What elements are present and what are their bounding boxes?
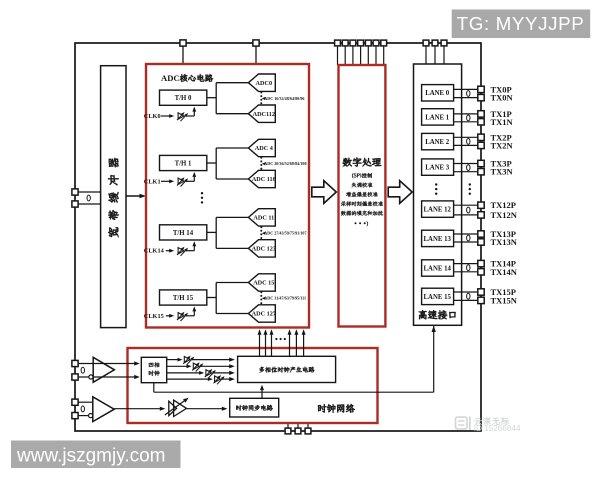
ADC slice ADC0 <box>248 74 275 91</box>
wire: sync amplifier to variable delay <box>114 408 162 410</box>
wires: multiphase clock outputs up to ADC core <box>259 332 261 357</box>
wire: T/H 0 output to ADC pair bracket <box>207 97 216 99</box>
wire: clock input pair to four-phase clock box <box>78 363 137 365</box>
svg-text:ADC 20/36/52/68/84/100: ADC 20/36/52/68/84/100 <box>264 161 306 166</box>
block: track-and-hold T/H 15 <box>160 290 207 305</box>
wire: LANE 0 to TX pins <box>453 88 478 90</box>
label 增益偏差校准 <box>346 192 351 197</box>
pin TX3P <box>478 160 484 166</box>
pin TX14P <box>478 260 484 266</box>
wire: T/H 14 output to ADC pair bracket <box>207 231 216 233</box>
pin TX13P <box>478 231 484 237</box>
wire: LANE 15 to TX pins <box>453 291 478 293</box>
block: four-phase clock 四相时钟 <box>141 357 166 382</box>
top pin P1 (to ADC core) <box>182 43 184 64</box>
svg-text:ADC 31/47/63/79/95/111: ADC 31/47/63/79/95/111 <box>264 296 306 301</box>
svg-text:LANE 3: LANE 3 <box>425 165 450 172</box>
top pin P2 (to ADC core) <box>255 43 257 64</box>
svg-text:TG: MYYJJPP: TG: MYYJJPP <box>457 13 585 34</box>
pin TX1P <box>478 111 484 117</box>
label ellipsis <box>355 222 357 224</box>
pin TX15N <box>478 297 484 303</box>
svg-text:ADC: ADC <box>161 73 180 83</box>
bottom pins (clock network group) <box>287 423 289 431</box>
pin TX1N <box>478 119 484 125</box>
differential marker ellipse LANE 15 <box>467 293 470 299</box>
svg-text:CLK15: CLK15 <box>144 313 164 320</box>
svg-text:TX14N: TX14N <box>491 267 518 277</box>
block arrow: ADC core to digital processing <box>312 181 337 204</box>
block: LANE 3 <box>422 159 454 175</box>
svg-text:ADC 123: ADC 123 <box>252 246 276 253</box>
pin TX13N <box>478 239 484 245</box>
differential marker ellipse LANE 12 <box>467 207 470 213</box>
ADC slice ADC 127 <box>248 305 275 322</box>
differential marker ellipse LANE 3 <box>467 165 470 171</box>
pin TX2P <box>478 134 484 140</box>
svg-text:T/H 0: T/H 0 <box>175 95 192 102</box>
svg-text:ADC0: ADC0 <box>256 80 273 87</box>
svg-text:CLK14: CLK14 <box>144 248 165 255</box>
pin SYNC- <box>72 413 78 419</box>
faint watermark logo <box>456 417 468 429</box>
pin TX3N <box>478 169 484 175</box>
block: LANE 12 <box>422 201 454 217</box>
block: LANE 2 <box>422 133 454 149</box>
svg-text:LANE 1: LANE 1 <box>425 114 450 121</box>
svg-text:LANE 15: LANE 15 <box>424 294 452 301</box>
svg-text:T/H 1: T/H 1 <box>175 160 192 167</box>
pin TX15P <box>478 289 484 295</box>
block: high speed interface 高速接口 <box>414 64 462 325</box>
ADC slice ADC 4 <box>248 139 275 156</box>
wire: T/H 1 output to ADC pair bracket <box>207 162 216 164</box>
vertical dots between TX pin groups <box>469 183 471 185</box>
svg-text:TX3N: TX3N <box>491 167 514 177</box>
svg-text:TX13N: TX13N <box>491 237 518 247</box>
pin TX12N <box>478 212 484 218</box>
wire: LANE 12 to TX pins <box>453 204 478 206</box>
svg-text:ADC 27/43/59/75/91/107: ADC 27/43/59/75/91/107 <box>264 231 306 236</box>
wire: analog input pair to buffer <box>75 191 101 193</box>
svg-text:LANE 12: LANE 12 <box>424 207 452 214</box>
svg-text:ADC 116: ADC 116 <box>252 176 276 183</box>
block: LANE 1 <box>422 109 454 125</box>
label 数字处理 <box>343 158 352 167</box>
block: LANE 15 <box>422 288 454 304</box>
top pins (high speed interface group) <box>425 43 427 64</box>
variable delay symbol (double triangle) <box>169 401 177 415</box>
svg-text:ADC 4: ADC 4 <box>255 145 273 152</box>
vertical dots between T/H groups <box>201 192 203 194</box>
svg-text:LANE 0: LANE 0 <box>425 90 450 97</box>
svg-text:LANE 13: LANE 13 <box>424 236 452 243</box>
watermark www.jszgmjy.com <box>11 441 181 469</box>
svg-text:T/H 14: T/H 14 <box>173 230 194 237</box>
svg-text:TX1N: TX1N <box>491 117 514 127</box>
wire: LANE 13 to TX pins <box>453 233 478 235</box>
block: track-and-hold T/H 1 <box>160 155 207 170</box>
dotted interleave indicator <box>260 157 262 159</box>
horizontal dots between clock output groups <box>275 338 277 340</box>
svg-text:ADC112: ADC112 <box>253 111 275 118</box>
pin VIN+ <box>72 189 78 195</box>
svg-text:ADC 16/32/48/64/80/96: ADC 16/32/48/64/80/96 <box>264 96 304 101</box>
svg-text:ADC 11: ADC 11 <box>253 215 274 222</box>
top pins (digital processing group) <box>337 43 339 65</box>
watermark banner TG: MYYJJPP <box>452 10 591 39</box>
differential marker ellipse LANE 13 <box>467 235 470 241</box>
wire: LANE 2 to TX pins <box>453 136 478 138</box>
dotted interleave indicator <box>260 92 262 94</box>
svg-text:T/H 15: T/H 15 <box>173 295 194 302</box>
svg-text:ADC 127: ADC 127 <box>252 311 276 318</box>
block: LANE 0 <box>422 85 454 101</box>
dotted interleave indicator <box>260 291 262 293</box>
svg-text:TX0N: TX0N <box>491 93 514 103</box>
label 高速接口 <box>419 310 427 319</box>
wire: delay element to T/H 0 <box>186 115 194 117</box>
pin TX12P <box>478 202 484 208</box>
clock delay element for T/H 0 <box>178 113 184 119</box>
block: LANE 13 <box>422 230 454 246</box>
differential marker ellipse (input) <box>87 195 90 201</box>
label 采样时刻偏差校准 <box>341 201 346 206</box>
block arrow: digital processing to high speed interface <box>388 181 412 204</box>
label 失调校准 <box>352 183 357 188</box>
wire: phase clock line 1 with delay element <box>167 365 191 367</box>
svg-text:LANE 14: LANE 14 <box>424 265 452 272</box>
chip outer boundary box <box>75 43 481 431</box>
differential marker ellipse LANE 0 <box>467 91 470 97</box>
differential marker ellipse LANE 14 <box>467 265 470 271</box>
label 数据的填充和加扰 <box>341 211 346 216</box>
block: multiphase clock generator 多相位时钟产生电路 <box>238 356 336 382</box>
wire: delay element to T/H 15 <box>186 315 194 317</box>
pin TX0N <box>478 94 484 100</box>
differential marker ellipse (clock input) <box>81 367 84 373</box>
block: ADC core circuit 红框 ADC核心电路 <box>146 64 309 328</box>
ADC slice ADC112 <box>248 105 275 122</box>
amplifier: sync input buffer <box>93 397 114 422</box>
block: clock sync circuit 时钟同步电路 <box>230 398 279 417</box>
wire: buffer output to ADC core <box>126 195 144 197</box>
ADC slice ADC 123 <box>248 240 275 257</box>
ADC slice ADC 15 <box>248 274 275 291</box>
block: clock network 红框 时钟网络 <box>128 348 378 423</box>
label 时钟网络 <box>318 404 326 412</box>
ADC slice ADC 11 <box>248 209 275 226</box>
wire: LANE 14 to TX pins <box>453 263 478 265</box>
wire: delay element to T/H 1 <box>186 180 194 182</box>
svg-text:CLK1: CLK1 <box>144 178 161 185</box>
block: track-and-hold T/H 0 <box>160 90 207 105</box>
svg-text:LANE 2: LANE 2 <box>425 139 450 146</box>
wire: frame clock from four-phase box to high speed interface <box>153 383 155 393</box>
pin TX14N <box>478 269 484 275</box>
block: wideband buffer 宽带缓冲器 <box>101 66 126 328</box>
svg-text:ID:15266844: ID:15266844 <box>474 424 521 433</box>
pin CLKIN- <box>72 374 78 380</box>
wire: LANE 1 to TX pins <box>453 113 478 115</box>
pin TX2N <box>478 142 484 148</box>
clock delay element for T/H 15 <box>178 313 184 319</box>
wire: clock sync to multiphase generator <box>261 387 263 399</box>
pin VIN- <box>72 201 78 207</box>
wire: LANE 3 to TX pins <box>453 163 478 165</box>
differential marker ellipse LANE 2 <box>467 138 470 144</box>
clock delay element for T/H 14 <box>178 248 184 254</box>
wire: phase clock line 3 with delay element <box>167 378 212 380</box>
svg-text:TX12P: TX12P <box>491 200 517 210</box>
vertical dots between lanes <box>435 183 437 185</box>
label (SPI控制 <box>352 173 353 178</box>
svg-text:TX15N: TX15N <box>491 295 518 305</box>
svg-text:ADC 15: ADC 15 <box>253 280 274 287</box>
amplifier: clock input buffer <box>93 357 114 382</box>
dotted interleave indicator <box>260 226 262 228</box>
svg-text:CLK0: CLK0 <box>144 113 161 120</box>
svg-text:TX2N: TX2N <box>491 140 514 150</box>
clock delay element for T/H 1 <box>178 178 184 184</box>
block: LANE 14 <box>422 260 454 276</box>
block: digital processing 数字处理 <box>339 65 386 327</box>
wire: delay element to T/H 14 <box>186 250 194 252</box>
faint watermark 云深无际 <box>474 418 482 425</box>
svg-text:www.jszgmjy.com: www.jszgmjy.com <box>16 445 166 466</box>
block: track-and-hold T/H 14 <box>160 225 207 240</box>
pin SYNC+ <box>72 399 78 405</box>
pin TX0P <box>478 86 484 92</box>
svg-text:TX12N: TX12N <box>491 210 518 220</box>
wire: variable delay to clock sync box <box>187 408 225 410</box>
wire: sync input pair to amplifier <box>78 401 93 403</box>
wire: phase clock line 0 with delay element <box>167 359 182 361</box>
differential marker ellipse LANE 1 <box>467 115 470 121</box>
wire: T/H 15 output to ADC pair bracket <box>207 297 216 299</box>
pin CLKIN+ <box>72 360 78 366</box>
differential marker ellipse (sync input) <box>81 406 84 412</box>
wire: phase clock line 2 with delay element <box>167 372 203 374</box>
ADC slice ADC 116 <box>248 170 275 187</box>
